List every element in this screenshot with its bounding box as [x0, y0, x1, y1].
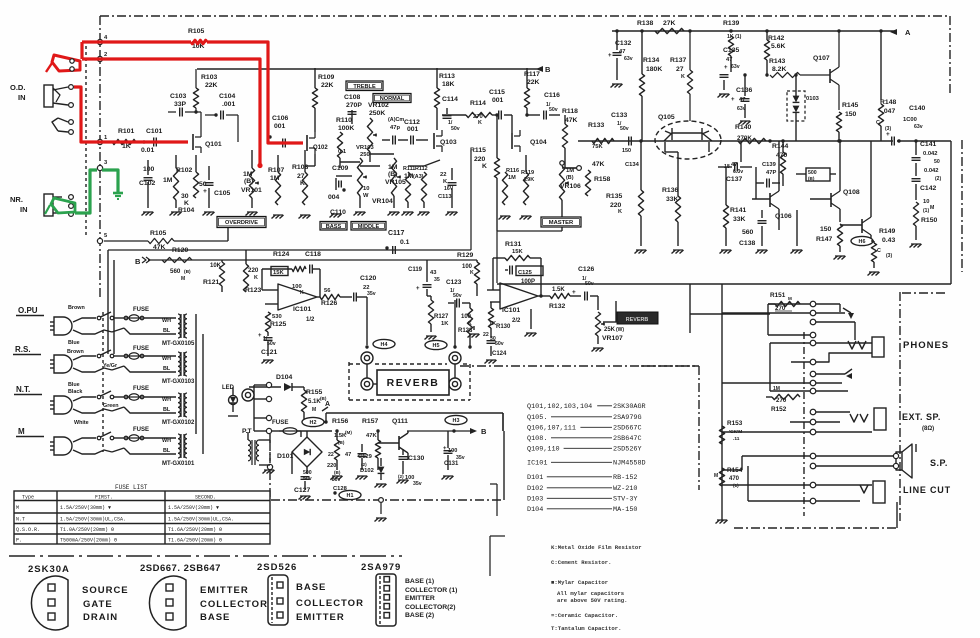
- resistor R118: [562, 108, 578, 168]
- capacitor C103: [168, 93, 198, 117]
- svg-text:(8Ω): (8Ω): [922, 426, 934, 432]
- svg-text:R112: R112: [415, 166, 428, 172]
- transistor Q101: [193, 131, 222, 153]
- svg-text:K: K: [254, 275, 258, 281]
- svg-text:2SD667C: 2SD667C: [613, 425, 642, 433]
- node main R140: [768, 139, 771, 142]
- svg-text:BL: BL: [163, 366, 171, 372]
- ground VR101: [246, 212, 258, 216]
- node reverb send: [365, 345, 368, 348]
- resistor R129: [457, 252, 480, 296]
- diode D104: [249, 374, 304, 391]
- svg-text:30: 30: [181, 193, 189, 200]
- svg-text:47K: 47K: [366, 433, 377, 439]
- svg-text:IC101: IC101: [502, 307, 520, 314]
- jack ext contacts: [810, 409, 816, 435]
- wire C123 node: [427, 296, 472, 349]
- resistor R130: [488, 302, 511, 330]
- resistor R142: [764, 29, 785, 75]
- svg-text:VR103: VR103: [356, 145, 375, 151]
- overdrive box: [217, 217, 266, 228]
- svg-text:IC101: IC101: [293, 306, 311, 313]
- svg-text:47p: 47p: [390, 125, 400, 131]
- svg-text:T:Tantalum Capacitor.: T:Tantalum Capacitor.: [551, 625, 622, 632]
- transistor Q105 pair: [655, 114, 721, 159]
- svg-text:EXT. SP.: EXT. SP.: [902, 412, 941, 422]
- wire main line: [578, 140, 893, 142]
- svg-text:D103: D103: [527, 496, 543, 504]
- svg-text:22: 22: [328, 452, 334, 458]
- capacitor C120: [354, 275, 377, 345]
- jack O.D. IN: [10, 83, 73, 134]
- svg-text:(2): (2): [398, 474, 404, 479]
- svg-text:2/2: 2/2: [512, 318, 521, 324]
- capacitor C111: [382, 117, 428, 145]
- wire red highlighted loop (line 2): [82, 59, 263, 168]
- jack reverb ret bot: [449, 378, 461, 390]
- svg-text:BASE: BASE: [296, 582, 326, 593]
- svg-text:K:Metal Oxide Film Resistor: K:Metal Oxide Film Resistor: [551, 544, 642, 551]
- resistor R112: [421, 172, 426, 208]
- svg-text:001: 001: [492, 97, 504, 104]
- svg-text:MT-GX0102: MT-GX0102: [162, 420, 195, 426]
- svg-text:10: 10: [923, 199, 929, 205]
- svg-text:63v: 63v: [914, 124, 923, 130]
- svg-text:BL: BL: [163, 328, 171, 334]
- svg-text:WH: WH: [162, 438, 171, 444]
- svg-text:+: +: [731, 97, 735, 103]
- svg-text:R130: R130: [496, 324, 511, 330]
- connector M row: [16, 427, 196, 467]
- svg-text:18K: 18K: [442, 81, 455, 88]
- wire amp bottom line: [497, 283, 951, 285]
- svg-text:(2): (2): [935, 176, 941, 182]
- legend 2SK30A: [28, 564, 129, 630]
- svg-text:R141: R141: [730, 207, 746, 214]
- svg-text:250: 250: [360, 152, 370, 158]
- svg-text:C103: C103: [170, 93, 186, 100]
- wire treble bus: [197, 68, 540, 70]
- svg-text:10: 10: [363, 186, 369, 192]
- svg-text:2SK30A: 2SK30A: [28, 564, 70, 575]
- svg-text:COLLECTOR: COLLECTOR: [200, 599, 268, 610]
- capacitor C123: [446, 279, 470, 308]
- svg-text:C129: C129: [358, 454, 373, 460]
- svg-text:Blue: Blue: [68, 382, 80, 388]
- svg-text:C135: C135: [723, 47, 739, 54]
- svg-text:+: +: [258, 333, 262, 339]
- svg-text:Q107: Q107: [813, 55, 830, 62]
- svg-text:0.1: 0.1: [338, 149, 347, 155]
- svg-text:Ye/Gr: Ye/Gr: [103, 363, 118, 369]
- svg-text:R101: R101: [118, 128, 134, 135]
- jack reverb send bot: [361, 378, 373, 390]
- svg-text:15K: 15K: [273, 270, 284, 276]
- svg-text:75K: 75K: [592, 144, 603, 150]
- svg-text:15K: 15K: [512, 249, 523, 255]
- wire tone interconnects: [305, 154, 440, 176]
- wire ext links: [722, 412, 872, 432]
- svg-text:(3): (3): [886, 253, 892, 259]
- svg-text:R116: R116: [506, 168, 519, 174]
- capacitor C124: [483, 328, 507, 357]
- svg-text:C116: C116: [544, 92, 560, 99]
- speaker SP: [893, 444, 916, 478]
- resistor R140: [735, 124, 766, 144]
- transistor Q107: [800, 29, 841, 110]
- svg-text:C106: C106: [272, 115, 288, 122]
- svg-text:R136: R136: [662, 187, 678, 194]
- svg-text:FIRST.: FIRST.: [95, 495, 113, 501]
- svg-text:1C00: 1C00: [903, 117, 917, 123]
- svg-text:Q102: Q102: [313, 145, 328, 151]
- wire green NR loop: [45, 170, 97, 214]
- wire phones loop: [770, 343, 810, 391]
- svg-text:R107: R107: [268, 167, 284, 174]
- svg-text:C130: C130: [408, 455, 424, 462]
- svg-text:2SB647C: 2SB647C: [613, 435, 642, 443]
- svg-text:R144: R144: [772, 143, 788, 150]
- svg-text:Brown: Brown: [67, 349, 84, 355]
- wire panel bus: [721, 284, 723, 521]
- svg-text:MT-GX0101: MT-GX0101: [162, 461, 195, 467]
- potentiometer VR101: [241, 150, 262, 208]
- svg-text:47: 47: [345, 452, 351, 458]
- svg-text:C101: C101: [146, 128, 162, 135]
- svg-text:100: 100: [143, 166, 155, 173]
- svg-text:R110: R110: [336, 117, 352, 124]
- svg-text:C125: C125: [518, 270, 533, 276]
- capacitor C101: [141, 128, 162, 154]
- wire master down: [497, 231, 562, 283]
- jack phones sleeve: [848, 337, 884, 357]
- svg-text:R.S.: R.S.: [15, 345, 31, 354]
- wire power B right: [502, 413, 504, 431]
- wire legend corner: [490, 536, 505, 576]
- svg-text:W: W: [363, 193, 369, 199]
- svg-text:2SA979G: 2SA979G: [613, 414, 642, 422]
- svg-text:220: 220: [248, 267, 259, 274]
- svg-text:.047: .047: [882, 108, 895, 115]
- svg-text:C112: C112: [404, 119, 420, 126]
- svg-text:WH: WH: [162, 318, 171, 324]
- capacitor C125: [493, 266, 543, 286]
- svg-text:BL: BL: [163, 448, 171, 454]
- capacitor C121: [258, 332, 277, 356]
- svg-text:1M: 1M: [163, 177, 173, 184]
- node fs A: [304, 413, 328, 424]
- svg-text:N.T.: N.T.: [16, 385, 30, 394]
- svg-text:27K: 27K: [663, 20, 676, 27]
- wire out right: [950, 141, 952, 284]
- capacitor C133: [611, 112, 640, 168]
- resistor R148: [876, 29, 896, 141]
- capacitor C139: [756, 162, 780, 188]
- node 4: [97, 35, 108, 45]
- capacitor C127: [292, 431, 312, 494]
- svg-text:COLLECTOR: COLLECTOR: [296, 598, 364, 609]
- svg-text:D101: D101: [527, 474, 543, 482]
- capacitor C130: [398, 449, 424, 487]
- svg-text:TREBLE: TREBLE: [353, 84, 376, 90]
- capacitor C116: [525, 92, 560, 120]
- svg-text:REVERB: REVERB: [387, 377, 440, 389]
- svg-text:(B): (B): [808, 176, 815, 181]
- oval H b: [445, 415, 467, 424]
- middle box: [351, 222, 386, 231]
- svg-text:(W): (W): [616, 327, 624, 333]
- svg-text:MT-GX0103: MT-GX0103: [162, 379, 195, 385]
- svg-text:B: B: [481, 427, 487, 436]
- legend 2SD526: [257, 562, 364, 625]
- svg-text:Q103: Q103: [440, 139, 457, 146]
- ground R150: [910, 244, 922, 248]
- svg-text:M: M: [788, 296, 792, 301]
- ground R102: [170, 212, 182, 216]
- jack sp contacts: [722, 453, 896, 470]
- wire red plug: [46, 55, 80, 72]
- capacitor C113: [438, 168, 457, 208]
- svg-text:A: A: [905, 28, 911, 37]
- svg-text:COLLECTOR(2): COLLECTOR(2): [405, 604, 455, 611]
- svg-text:R121: R121: [203, 279, 219, 286]
- svg-text:2SD667. 2SB647: 2SD667. 2SB647: [140, 563, 221, 574]
- svg-text:004: 004: [328, 194, 340, 201]
- svg-text:MASTER: MASTER: [549, 220, 574, 226]
- trimmer VR108: [796, 168, 836, 181]
- svg-text:100K: 100K: [338, 125, 354, 132]
- svg-text:R113: R113: [439, 73, 455, 80]
- svg-text:150: 150: [622, 148, 631, 154]
- svg-text:50: 50: [934, 159, 940, 165]
- resistor R101: [112, 128, 136, 150]
- jack phones contacts: [810, 301, 816, 394]
- svg-text:K: K: [470, 270, 474, 276]
- svg-text:8.2K: 8.2K: [772, 66, 786, 73]
- wire A rail: [612, 30, 895, 32]
- svg-text:C123: C123: [446, 279, 462, 286]
- capacitor C106: [268, 115, 288, 148]
- node 1: [97, 135, 108, 145]
- resistor R116: [502, 168, 519, 205]
- svg-text:M: M: [181, 276, 185, 282]
- svg-text:R149: R149: [879, 228, 895, 235]
- svg-text:Type: Type: [22, 495, 34, 501]
- capacitor C128: [327, 452, 348, 492]
- resistor R111: [403, 166, 428, 208]
- connector N.T. row: [14, 382, 196, 426]
- diode D103: [787, 73, 820, 141]
- svg-text:R140: R140: [735, 124, 751, 131]
- resistor R128: [458, 303, 473, 347]
- svg-text:(B): (B): [566, 175, 574, 181]
- fuse power: [269, 419, 332, 434]
- jack NR. IN: [10, 194, 73, 216]
- wire secondary bus: [196, 262, 203, 454]
- normal box: [373, 94, 411, 103]
- label B chevrons: [135, 257, 150, 266]
- ground VR107: [592, 348, 604, 352]
- resistor R134: [639, 31, 662, 141]
- svg-text:R129: R129: [457, 252, 473, 259]
- jack line contacts: [722, 466, 872, 504]
- svg-text:O.PU: O.PU: [18, 306, 38, 315]
- svg-text:WZ-210: WZ-210: [613, 485, 637, 493]
- svg-text:43: 43: [430, 270, 437, 276]
- svg-text:FUSE: FUSE: [133, 307, 149, 313]
- svg-text:C138: C138: [739, 240, 755, 247]
- capacitor C138: [739, 210, 767, 247]
- capacitor C114: [442, 96, 460, 132]
- svg-text:180K: 180K: [646, 66, 662, 73]
- svg-text:'CK'M: 'CK'M: [729, 429, 742, 435]
- resistor R124: [262, 251, 306, 290]
- wire B feed line: [148, 259, 477, 261]
- wire red input feed: [74, 87, 188, 142]
- svg-text:C126: C126: [578, 266, 594, 273]
- wire legend divider: [9, 555, 402, 557]
- svg-text:P.: P.: [16, 538, 22, 544]
- ground C102: [142, 212, 154, 216]
- svg-text:D101: D101: [277, 453, 293, 460]
- svg-text:R114: R114: [470, 100, 486, 107]
- capacitor C136: [731, 73, 752, 118]
- legend 2SA979: [361, 562, 457, 626]
- wire top dash-dot border: [100, 15, 950, 17]
- svg-text:R108: R108: [292, 164, 308, 171]
- resistor R152: [766, 386, 810, 413]
- wire right panel dash-dot separator: [899, 292, 901, 521]
- svg-text:(B): (B): [184, 269, 191, 275]
- svg-text:R151: R151: [770, 292, 786, 299]
- arrow up phones: [845, 369, 852, 379]
- svg-text:(M): (M): [345, 430, 352, 435]
- svg-text:R124: R124: [273, 251, 289, 258]
- oval H5: [425, 340, 447, 349]
- legend 2SD667 2SB647: [140, 563, 268, 630]
- svg-text:+: +: [886, 131, 890, 138]
- svg-text:(A)Cm: (A)Cm: [388, 117, 404, 123]
- svg-text:150: 150: [820, 226, 832, 233]
- svg-text:1/2: 1/2: [306, 317, 315, 323]
- resistor R126: [320, 288, 352, 307]
- svg-text:SECOND.: SECOND.: [195, 495, 216, 501]
- svg-text:2SD526: 2SD526: [257, 562, 297, 573]
- svg-text:T1.6A/250V(20mm) Θ: T1.6A/250V(20mm) Θ: [168, 538, 222, 544]
- label R105 top: [188, 28, 205, 50]
- svg-text:R137: R137: [670, 57, 686, 64]
- svg-text:R145: R145: [842, 102, 858, 109]
- svg-text:C120: C120: [360, 275, 376, 282]
- resistor R127: [428, 296, 449, 332]
- svg-text:H6: H6: [859, 239, 866, 245]
- svg-text:R109: R109: [318, 74, 334, 81]
- svg-text:C: C: [877, 248, 881, 254]
- transistor Q103: [434, 130, 457, 152]
- svg-text:VR104: VR104: [372, 198, 393, 205]
- resistor R102: [163, 155, 192, 208]
- label LINE OUT: [903, 485, 951, 495]
- svg-text:0.042: 0.042: [923, 151, 938, 157]
- svg-text:EMITTER: EMITTER: [200, 585, 249, 596]
- svg-text:C105: C105: [214, 190, 230, 197]
- wire panel left branch: [690, 284, 770, 333]
- svg-text:C119: C119: [408, 267, 423, 273]
- resistor R107: [268, 155, 284, 205]
- svg-text:K: K: [681, 74, 685, 80]
- svg-text:B: B: [545, 65, 551, 74]
- svg-text:BASE: BASE: [200, 612, 230, 623]
- resistor R156: [332, 418, 352, 470]
- node reverb return: [453, 300, 456, 349]
- svg-text:MIDDLE: MIDDLE: [358, 224, 380, 230]
- wire parts box edge: [641, 366, 699, 490]
- resistor R138: [637, 20, 692, 34]
- text notes: [551, 544, 642, 632]
- svg-text:001: 001: [407, 126, 419, 133]
- wire Q101 drain: [196, 112, 201, 131]
- transistor Q102: [307, 132, 328, 154]
- svg-text:C118: C118: [305, 251, 321, 258]
- resistor R132: [549, 287, 581, 310]
- resistor R121: [203, 260, 225, 292]
- svg-text:27: 27: [676, 66, 684, 73]
- svg-text:VR102: VR102: [368, 102, 389, 109]
- svg-text:T1.6A/250V(20mm) Θ: T1.6A/250V(20mm) Θ: [168, 527, 222, 533]
- ground C121: [262, 360, 274, 364]
- capacitor C118: [305, 251, 321, 297]
- label PHONES: [903, 340, 949, 351]
- resistor R145: [836, 102, 858, 143]
- ground C124: [468, 326, 497, 364]
- svg-text:Q101,102,103,104: Q101,102,103,104: [527, 403, 592, 411]
- svg-text:Brown: Brown: [68, 305, 85, 311]
- svg-text:+: +: [572, 289, 576, 296]
- svg-text:K: K: [184, 200, 189, 207]
- wire mid dash-dot border: [460, 365, 697, 367]
- svg-text:REVERB: REVERB: [626, 317, 649, 323]
- svg-text:Q108: Q108: [843, 189, 860, 196]
- zener D102: [360, 458, 384, 480]
- svg-text:K: K: [618, 209, 622, 215]
- svg-text:FUSE: FUSE: [133, 386, 149, 392]
- svg-text:DRAIN: DRAIN: [83, 612, 118, 623]
- svg-text:220: 220: [610, 202, 622, 209]
- potentiometer VR104: [360, 186, 393, 208]
- svg-text:5.6K: 5.6K: [771, 43, 785, 50]
- transistor Q110: [840, 141, 873, 243]
- node 5: [97, 233, 108, 244]
- wire panel bottom dash-dot border: [716, 502, 898, 528]
- svg-text:C121: C121: [261, 349, 277, 356]
- svg-text:R135: R135: [606, 193, 622, 200]
- svg-text:47K: 47K: [565, 117, 578, 124]
- potentiometer VR102: [367, 102, 389, 162]
- transformer P.T: [242, 428, 270, 465]
- node A arrow: [890, 28, 911, 37]
- svg-text:R115: R115: [470, 147, 486, 154]
- svg-text:220: 220: [474, 156, 486, 163]
- svg-text:35: 35: [434, 277, 440, 283]
- svg-text:+: +: [203, 188, 207, 195]
- svg-text:K: K: [478, 120, 482, 126]
- svg-text:C131: C131: [444, 461, 459, 467]
- wire B rail out: [407, 427, 487, 436]
- node open R158: [562, 161, 610, 196]
- svg-text:C127: C127: [294, 487, 310, 494]
- ground C105: [203, 212, 215, 216]
- svg-text:D102: D102: [527, 485, 543, 493]
